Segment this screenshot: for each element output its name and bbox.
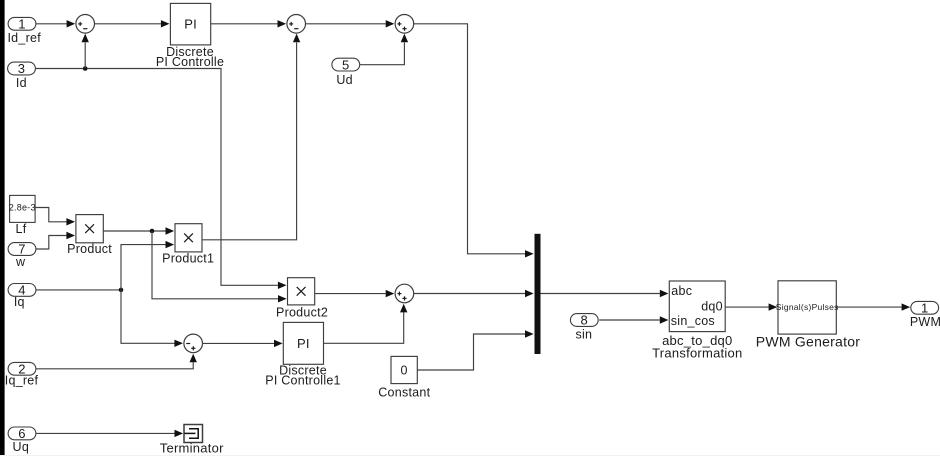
constant block Lf (2.8e-3): [9, 195, 36, 236]
product block Product: [67, 215, 112, 256]
svg-text:Ud: Ud: [336, 73, 352, 87]
wire S1 to PI: [95, 20, 170, 27]
wire port5 Ud to S3 plus input: [360, 34, 408, 65]
svg-text:sin_cos: sin_cos: [671, 314, 715, 328]
svg-text:Transformation: Transformation: [652, 346, 742, 361]
wire port4 Iq to junction: [36, 289, 121, 291]
wire S5 to PI1: [203, 340, 283, 347]
PI controller block Discrete PI Controlle1: [265, 322, 341, 387]
wire PI1 to S4 plus input: [324, 304, 408, 344]
wire Product2 to S4: [315, 290, 395, 297]
svg-text:PI Controlle: PI Controlle: [156, 55, 224, 69]
block PWM Generator: [756, 281, 860, 350]
svg-text:PWM Generator: PWM Generator: [756, 334, 860, 350]
product block Product2: [276, 278, 328, 320]
port In8 sin: [570, 313, 598, 342]
svg-text:Uq: Uq: [13, 440, 29, 454]
svg-text:2.8e-3: 2.8e-3: [9, 203, 36, 213]
sum junction S4 (+,+): [395, 284, 414, 303]
svg-text:Product2: Product2: [276, 306, 328, 320]
wire mux to abc input: [541, 290, 669, 297]
window edge bar: [0, 0, 5, 456]
svg-text:sin: sin: [576, 328, 593, 342]
junction on Id wire: [83, 66, 88, 71]
junction on Product output wire: [150, 229, 155, 234]
svg-text:PI: PI: [297, 336, 310, 351]
wire PWM Generator to port PWM: [836, 303, 910, 310]
sum junction S1 (+,-): [76, 14, 95, 33]
port In3 Id: [8, 61, 36, 90]
wire port3 Id to Product2 input 1: [36, 69, 287, 290]
svg-text:PI: PI: [184, 17, 197, 32]
svg-text:dq0: dq0: [701, 299, 723, 313]
wire Product output branch to Product2 input 2: [152, 231, 287, 303]
wire port8 sin to sin_cos input: [599, 316, 668, 323]
svg-text:w: w: [15, 255, 26, 269]
sum junction S5 (-,+): [184, 334, 203, 353]
svg-text:0: 0: [400, 364, 407, 378]
wire abc_to_dq0 to PWM Generator: [725, 303, 777, 310]
svg-text:Constant: Constant: [378, 385, 430, 399]
svg-text:1: 1: [18, 17, 25, 32]
wire Iq branch to Product1 input 2: [121, 241, 174, 290]
svg-text:1: 1: [921, 301, 928, 316]
wire port6 Uq to Terminator: [36, 430, 183, 437]
wire S2 to S3: [306, 20, 395, 27]
wire Lf to Product input 1: [35, 208, 75, 226]
junction on Iq wire: [119, 288, 124, 293]
wire S3 to mux input 1: [414, 24, 534, 258]
wire Iq branch to S5 minus input: [121, 290, 183, 347]
product block Product1: [162, 224, 214, 266]
svg-text:Signal(s)Pulses: Signal(s)Pulses: [776, 302, 839, 312]
svg-text:Iq_ref: Iq_ref: [5, 374, 39, 388]
svg-text:6: 6: [18, 426, 25, 441]
bottom divider: [0, 455, 940, 456]
block abc_to_dq0 Transformation: [652, 281, 742, 361]
port In5 Ud: [332, 57, 360, 87]
sum junction S3 (+,+): [395, 14, 414, 33]
sum junction S2 (+,-): [287, 14, 306, 33]
svg-text:8: 8: [581, 313, 588, 328]
svg-text:Iq: Iq: [14, 295, 25, 309]
port In7 w: [8, 242, 36, 269]
mux bar: [535, 234, 541, 354]
wire Id branch up to S1 minus: [82, 34, 89, 69]
svg-text:Id_ref: Id_ref: [7, 31, 41, 45]
wire Constant to mux input 3: [417, 330, 533, 370]
svg-text:Product: Product: [67, 242, 112, 256]
svg-text:Terminator: Terminator: [160, 441, 224, 456]
wire PI to S2: [211, 20, 286, 27]
port Out1 PWM: [910, 301, 940, 330]
svg-text:Lf: Lf: [16, 222, 27, 236]
wire port1 to S1: [36, 20, 75, 27]
terminator block Terminator: [160, 425, 224, 456]
wire Product to Product1 input 1: [103, 227, 174, 234]
port In2 Iq_ref: [5, 362, 39, 388]
svg-text:PI Controlle1: PI Controlle1: [265, 373, 341, 387]
svg-text:3: 3: [18, 61, 25, 76]
wire Product1 to S2 minus input: [202, 34, 300, 240]
port In6 Uq: [8, 426, 36, 454]
PI controller block Discrete PI Controlle: [156, 3, 224, 68]
port In4 Iq: [8, 283, 36, 309]
port In1 Id_ref: [7, 17, 41, 45]
constant block Constant (0): [378, 356, 430, 399]
svg-text:Product1: Product1: [162, 252, 214, 266]
svg-text:PWM: PWM: [910, 315, 940, 329]
svg-text:Id: Id: [16, 76, 27, 90]
wire S4 to mux input 2: [414, 290, 534, 297]
wire port2 Iq_ref to S5 plus input: [36, 354, 197, 369]
svg-text:abc: abc: [671, 284, 692, 298]
svg-text:5: 5: [342, 57, 349, 72]
wire port7 w to Product input 2: [36, 232, 75, 249]
